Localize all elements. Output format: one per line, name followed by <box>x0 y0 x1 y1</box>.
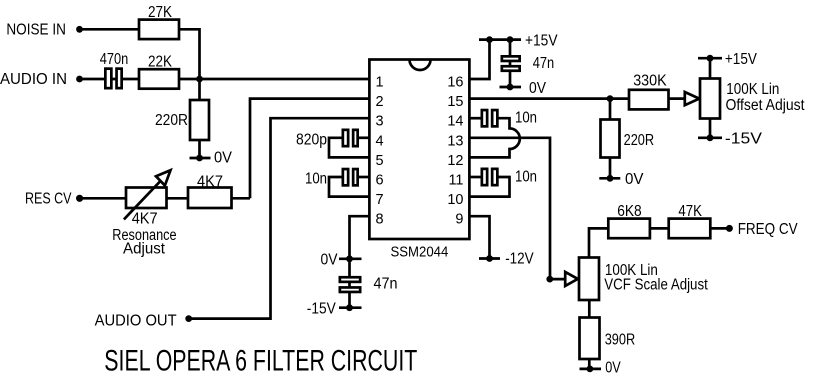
ground 0V left dot <box>196 155 203 162</box>
resistor 390R <box>580 318 600 360</box>
svg-text:0V: 0V <box>605 360 621 377</box>
svg-text:470n: 470n <box>100 51 129 68</box>
wire +15V rail <box>479 38 521 41</box>
svg-text:Offset Adjust: Offset Adjust <box>726 97 806 114</box>
wire pin13 to vcf pot <box>469 138 565 279</box>
wire offset pot bottom lead <box>709 119 712 138</box>
svg-text:AUDIO OUT: AUDIO OUT <box>95 312 177 329</box>
svg-text:VCF Scale Adjust: VCF Scale Adjust <box>604 277 708 294</box>
wire 0V tick right <box>599 177 620 180</box>
wire pin3 down to audio-out <box>189 118 370 318</box>
svg-text:220R: 220R <box>155 112 188 129</box>
wire 0V tick bottom right <box>580 368 602 371</box>
wire vcf pot top to 6K8 <box>589 228 608 257</box>
svg-text:10n: 10n <box>305 170 327 187</box>
wire 0V tick mid <box>339 257 362 260</box>
svg-text:2: 2 <box>376 94 384 110</box>
potentiometer vcf wiper arrow <box>565 272 578 286</box>
svg-text:330K: 330K <box>633 73 667 90</box>
wire -15V tick pot <box>698 136 722 139</box>
svg-text:10n: 10n <box>515 110 537 127</box>
potentiometer 100K vcf body <box>579 258 599 301</box>
wire 0V tick left <box>190 157 211 160</box>
node -12V dot <box>486 255 493 262</box>
node 0V mid dot <box>346 255 353 262</box>
svg-text:47K: 47K <box>678 203 702 220</box>
capacitor 10n pin11 <box>482 169 487 185</box>
node -15V mid dot <box>346 304 353 311</box>
node freq-cv terminal <box>726 225 733 232</box>
svg-text:5: 5 <box>376 153 384 169</box>
svg-text:3: 3 <box>376 114 384 130</box>
svg-text:SIEL OPERA 6 FILTER CIRCUIT: SIEL OPERA 6 FILTER CIRCUIT <box>104 345 417 378</box>
wire audio-in line to IC pin1 <box>80 78 370 81</box>
wire vcf pot bottom to 390R <box>588 300 591 369</box>
svg-text:0V: 0V <box>321 252 339 269</box>
wire pin11 to 10n <box>469 176 480 179</box>
potentiometer 100K offset body <box>700 79 720 119</box>
wire 47K to freq-cv <box>710 227 729 230</box>
svg-text:10n: 10n <box>515 169 537 186</box>
wire -12V tick <box>479 257 500 260</box>
node +15V rail dot 2 <box>507 36 514 43</box>
svg-text:-15V: -15V <box>307 300 337 317</box>
wire pin14 to 10n <box>469 117 480 120</box>
svg-text:820p: 820p <box>296 132 327 149</box>
svg-text:4: 4 <box>376 133 384 149</box>
resistor 220R left <box>190 100 209 140</box>
node vcf wiper junction <box>546 276 553 283</box>
capacitor 820p <box>343 130 348 146</box>
potentiometer offset wiper arrow <box>685 92 700 105</box>
wire pin9 to -12V <box>469 216 489 258</box>
resistor 330K <box>629 90 669 110</box>
resistor 4K7 <box>188 188 232 209</box>
wire 10n hop over pin13 to pin12 <box>469 118 519 157</box>
node pin15 junction <box>607 95 614 102</box>
resistor 220R right <box>601 120 620 158</box>
wire 330K to offset pot wiper <box>668 97 685 100</box>
svg-text:Adjust: Adjust <box>123 241 166 258</box>
node audio-in terminal <box>76 76 83 83</box>
ground 0V top dot <box>507 84 514 91</box>
wire 6K8 to 47K <box>650 227 669 230</box>
capacitor 10n pins6-7 <box>343 169 348 185</box>
potentiometer 4K7 resonance body <box>126 188 167 209</box>
svg-text:8: 8 <box>376 212 384 228</box>
svg-text:0V: 0V <box>529 80 547 97</box>
svg-text:6: 6 <box>376 173 384 189</box>
svg-text:SSM2044: SSM2044 <box>391 245 449 261</box>
resistor 22K <box>139 69 179 89</box>
wire offset pot top lead <box>709 58 712 78</box>
wire pin16 to +15V rail <box>469 40 489 79</box>
node -15V pot dot <box>707 134 714 141</box>
svg-text:9: 9 <box>455 212 463 228</box>
wire 47n cap leads top <box>509 40 512 87</box>
node audio-out terminal <box>185 315 192 322</box>
capacitor 470n <box>105 69 111 89</box>
node A junction <box>196 76 203 83</box>
wire 10n bracket to pin7 <box>329 177 369 197</box>
wire 220R left branch to ground <box>198 79 201 158</box>
node +15V rail dot 1 <box>486 36 493 43</box>
svg-text:27K: 27K <box>148 4 173 21</box>
wire res-cv line <box>80 197 250 200</box>
svg-text:22K: 22K <box>148 53 173 70</box>
resistor 27K <box>139 20 179 39</box>
svg-text:+15V: +15V <box>725 51 758 68</box>
node +15V pot dot <box>707 55 714 62</box>
capacitor 10n pin14 <box>482 110 487 126</box>
ground 0V bottom right dot <box>587 366 594 373</box>
capacitor 47n bottom <box>340 277 360 282</box>
svg-text:AUDIO IN: AUDIO IN <box>0 71 67 88</box>
svg-text:4K7: 4K7 <box>132 210 158 227</box>
svg-text:220R: 220R <box>624 132 655 149</box>
svg-text:+15V: +15V <box>525 33 558 50</box>
node noise-in terminal <box>76 26 83 33</box>
wire pin8 to decoupling branch <box>350 216 370 308</box>
IC notch <box>410 60 431 71</box>
ground 0V right dot <box>607 175 614 182</box>
svg-text:14: 14 <box>447 114 463 130</box>
svg-text:10: 10 <box>447 192 463 208</box>
svg-text:16: 16 <box>447 75 463 91</box>
op-amp IC U1 SSM2044 body <box>369 60 469 240</box>
svg-text:0V: 0V <box>625 171 644 188</box>
resistor 6K8 <box>608 219 650 239</box>
svg-text:RES CV: RES CV <box>25 190 72 207</box>
svg-text:0V: 0V <box>214 150 233 167</box>
svg-text:11: 11 <box>448 173 463 189</box>
svg-text:NOISE IN: NOISE IN <box>6 22 66 39</box>
wire 0V tick top <box>500 86 522 89</box>
wire pin15 line to 330K <box>469 97 628 100</box>
svg-text:13: 13 <box>447 133 463 149</box>
node res-cv terminal <box>76 195 83 202</box>
resistor 47K <box>669 219 711 239</box>
svg-text:390R: 390R <box>605 332 636 349</box>
wire pin4 to 820p <box>359 136 369 139</box>
wire 10n bracket to pin10 <box>469 177 509 197</box>
wire -15V tick mid <box>339 306 362 309</box>
wire 820p bracket to pin5 <box>329 138 369 158</box>
svg-text:4K7: 4K7 <box>197 173 223 190</box>
svg-text:-15V: -15V <box>725 131 763 148</box>
svg-text:12: 12 <box>447 153 463 169</box>
capacitor 47n top <box>502 56 520 61</box>
wire pin2 to vertical x250 <box>250 99 369 199</box>
svg-text:1: 1 <box>376 75 384 91</box>
wire 220R right branch <box>609 99 612 179</box>
wire +15V tick pot <box>698 57 722 60</box>
svg-text:47n: 47n <box>374 275 398 292</box>
svg-text:6K8: 6K8 <box>617 203 642 220</box>
svg-text:47n: 47n <box>533 55 555 72</box>
potentiometer 4K7 wiper arrow <box>124 182 160 220</box>
wire noise-in to 27K to node A <box>80 29 200 79</box>
svg-text:100K Lin: 100K Lin <box>726 81 779 98</box>
svg-text:15: 15 <box>447 94 463 110</box>
svg-text:-12V: -12V <box>505 251 534 268</box>
svg-text:FREQ CV: FREQ CV <box>738 221 799 238</box>
svg-text:7: 7 <box>376 192 384 208</box>
wire pin6 to 10n <box>359 176 369 179</box>
